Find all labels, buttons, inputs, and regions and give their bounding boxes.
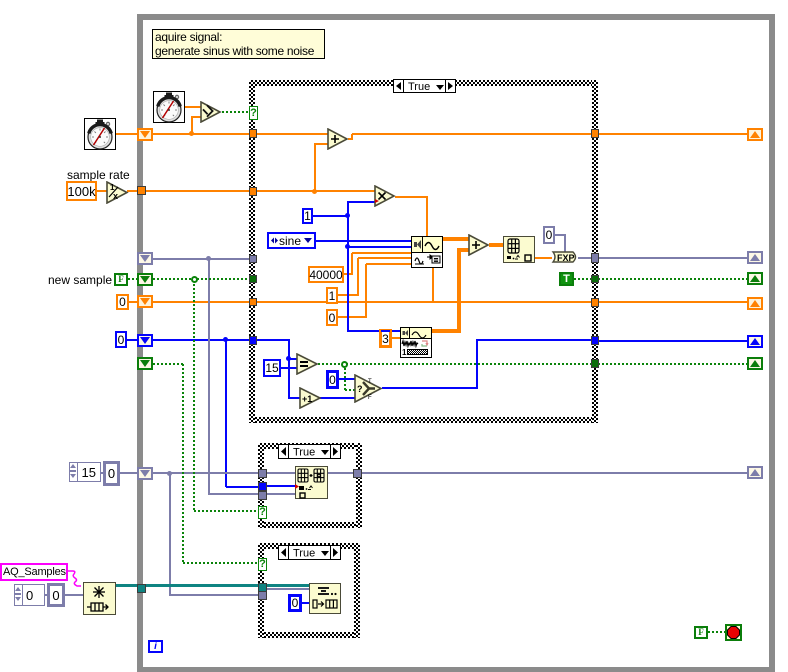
svg-text:FXP: FXP <box>557 253 575 263</box>
svg-text:T: T <box>368 379 372 385</box>
svg-text:?: ? <box>357 384 363 394</box>
svg-text:F: F <box>368 395 372 401</box>
svg-text:+1: +1 <box>302 394 312 404</box>
svg-text:x: x <box>113 191 118 201</box>
svg-text:True: True <box>408 81 430 92</box>
svg-text:1: 1 <box>402 348 407 357</box>
svg-text:True: True <box>293 447 315 459</box>
svg-text:True: True <box>293 548 315 560</box>
